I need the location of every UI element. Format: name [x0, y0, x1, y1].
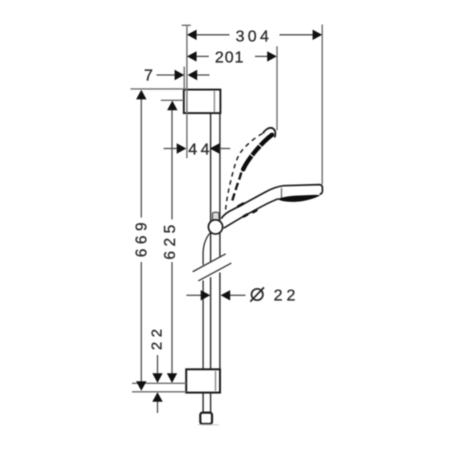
svg-text:22: 22: [274, 287, 300, 304]
svg-text:304: 304: [236, 29, 273, 46]
svg-text:44: 44: [188, 142, 213, 159]
svg-text:22: 22: [148, 324, 165, 350]
svg-text:7: 7: [144, 68, 153, 85]
svg-text:201: 201: [215, 50, 244, 67]
svg-text:669: 669: [134, 218, 151, 257]
svg-text:625: 625: [162, 220, 179, 259]
